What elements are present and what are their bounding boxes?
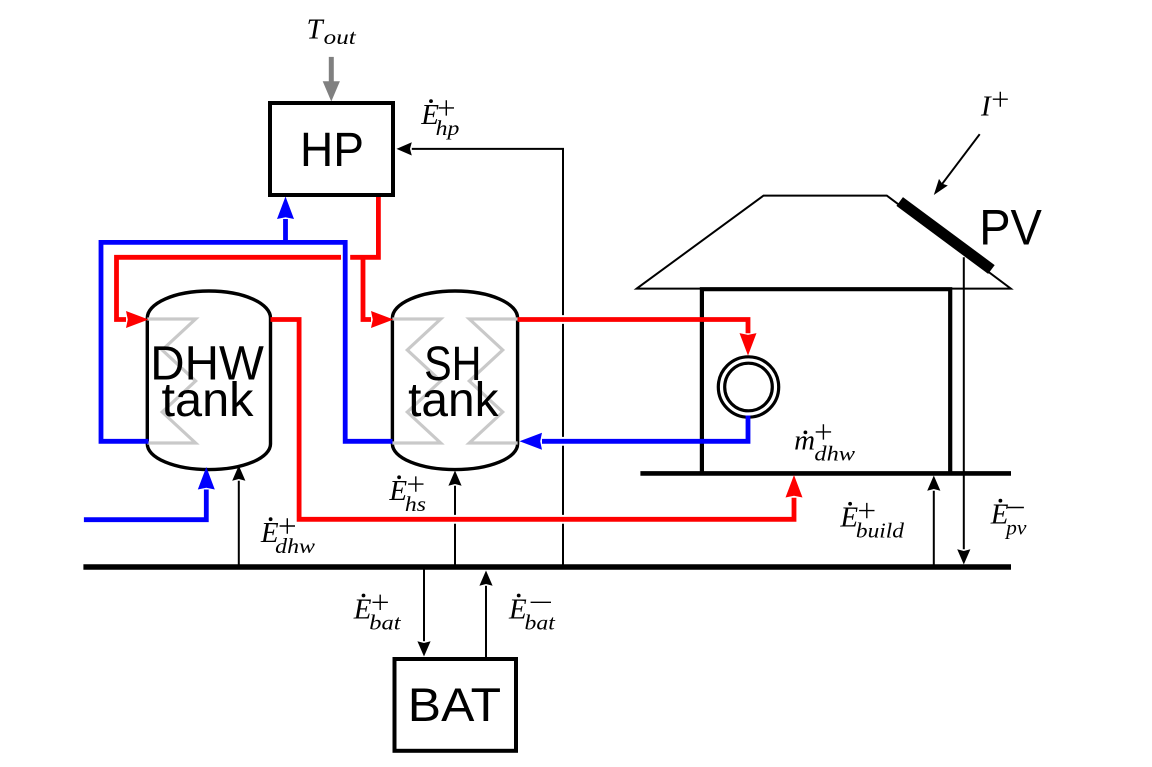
wire E+build from bus to house [933, 491, 935, 567]
house roof [637, 196, 1011, 289]
electric bus line [83, 564, 1011, 570]
label E-bat [508, 593, 556, 634]
wire E+hs from bus to SH tank [454, 486, 456, 567]
svg-text:tank: tank [408, 373, 499, 427]
arrow I+ solar irradiation [941, 134, 980, 185]
svg-text:bat: bat [369, 610, 402, 634]
PV panel bar [900, 202, 992, 270]
svg-text:hs: hs [405, 492, 426, 516]
wire E-bat from BAT to bus [485, 586, 487, 657]
svg-text:I: I [980, 91, 992, 123]
label I+ [980, 91, 1008, 123]
svg-text:PV: PV [979, 200, 1042, 256]
blue return pipe to HP [283, 219, 288, 242]
svg-text:hp: hp [436, 116, 460, 140]
SH tank vessel [392, 291, 517, 470]
label T_out [307, 14, 358, 49]
house floor [640, 471, 1011, 476]
wire E+bat from bus to BAT [423, 568, 425, 641]
svg-text:tank: tank [162, 373, 255, 427]
red pipe DHW tank to house tap [271, 320, 795, 520]
PV electric line (E-pv wire) [963, 257, 965, 549]
DHW tank vessel [147, 291, 270, 470]
T_out gray arrow into HP [329, 57, 334, 82]
label E+hs [388, 475, 426, 516]
radiator/pump double circle [718, 357, 778, 417]
blue pipe loop DHW/SH to HP [101, 242, 393, 441]
svg-text:dhw: dhw [275, 534, 315, 558]
svg-text:build: build [856, 519, 905, 543]
SH tank right heat exchanger coil [469, 319, 517, 443]
svg-text:out: out [324, 25, 357, 49]
red branch pipe to SH tank [363, 257, 371, 319]
BAT battery box [395, 659, 517, 751]
svg-text:pv: pv [1004, 516, 1027, 540]
red pipe SH tank to radiator [518, 320, 748, 334]
svg-text:dhw: dhw [814, 442, 855, 466]
svg-text:T: T [307, 14, 325, 46]
label E+dhw [260, 517, 315, 558]
DHW tank heat exchanger coil [147, 319, 195, 443]
label E-pv [990, 499, 1027, 540]
wire E+hp from bus to HP [412, 149, 563, 567]
red supply pipe HP to tanks [117, 195, 379, 320]
blue cold water inlet pipe [84, 490, 206, 520]
blue pipe radiator to SH tank [542, 416, 748, 442]
house walls [700, 287, 952, 473]
label m+dhw [794, 424, 855, 465]
svg-text:HP: HP [300, 123, 364, 177]
SH tank left heat exchanger coil [392, 319, 440, 443]
svg-text:bat: bat [525, 610, 557, 634]
svg-text:BAT: BAT [408, 678, 501, 731]
label E+build [839, 502, 904, 543]
wire E+dhw from bus to DHW tank [238, 481, 240, 567]
label E+hp [420, 99, 459, 140]
label E+bat [353, 593, 402, 634]
HP heat pump box [270, 103, 393, 195]
svg-text:m: m [794, 425, 815, 457]
